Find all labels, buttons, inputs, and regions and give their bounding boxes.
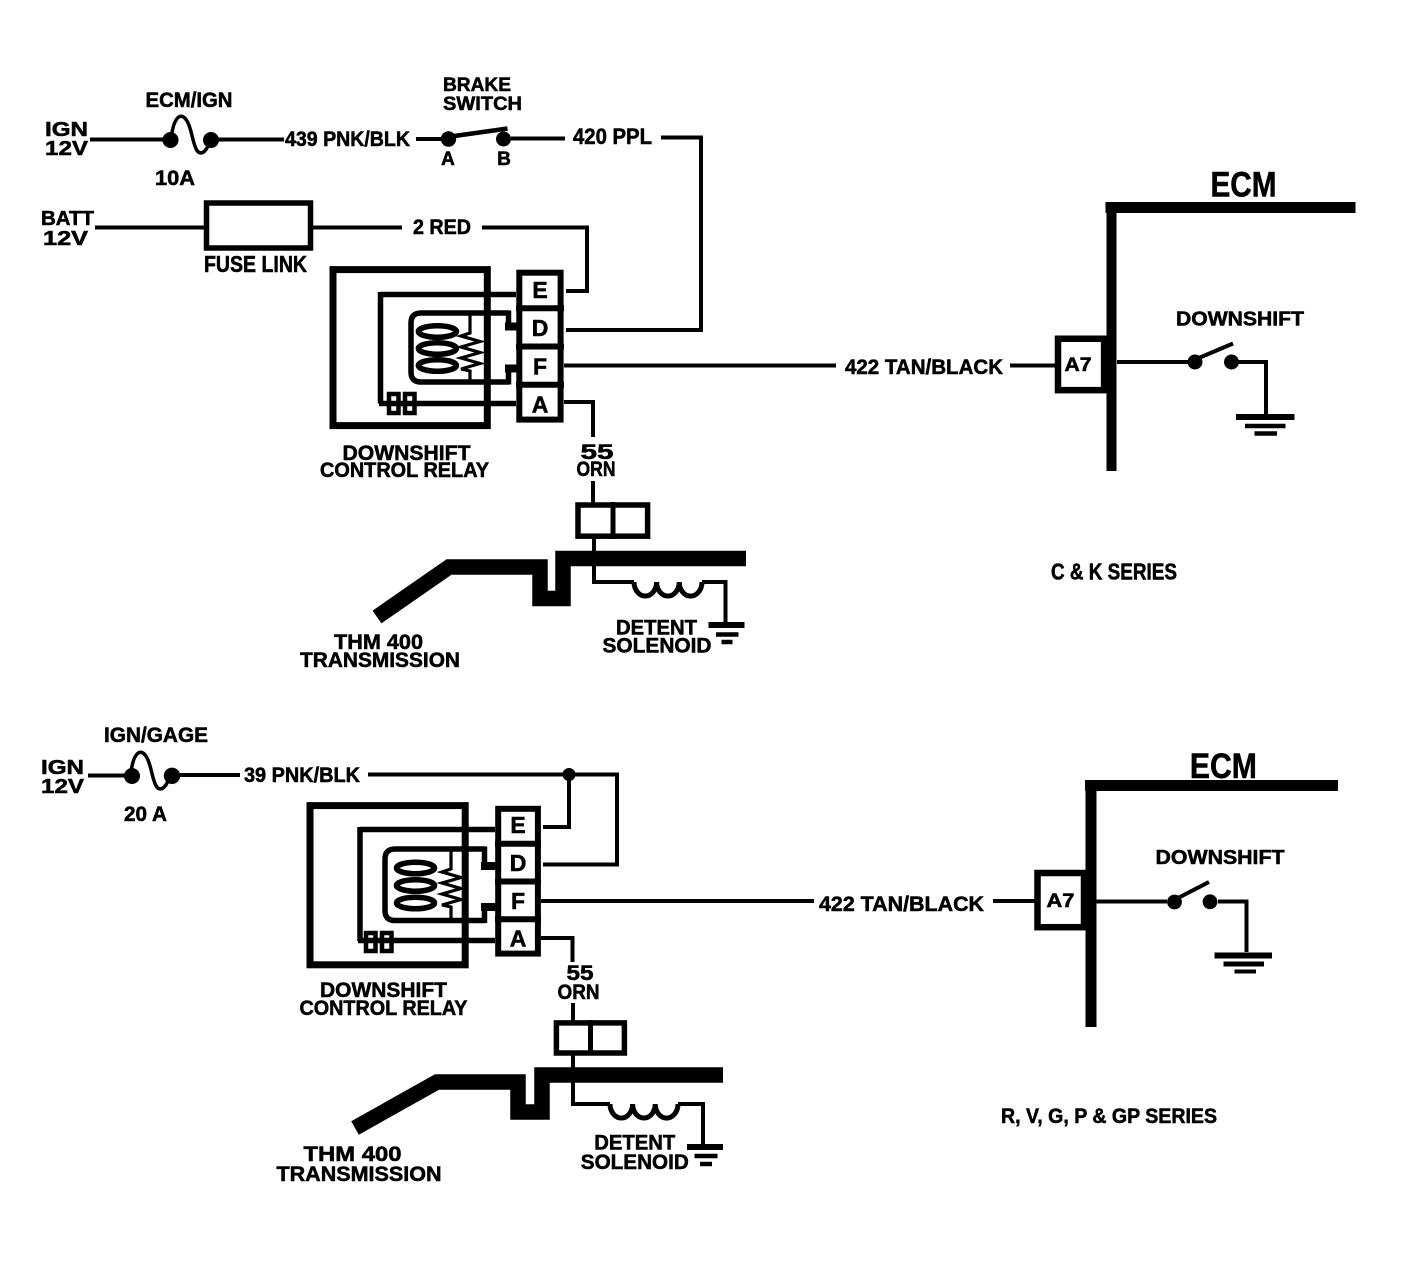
relay K2 tab to pin D <box>482 847 488 867</box>
svg-text:CONTROL RELAY: CONTROL RELAY <box>300 997 468 1020</box>
svg-text:FUSE LINK: FUSE LINK <box>204 251 307 277</box>
relay K1 downshift control relay (top) outer box <box>333 270 487 426</box>
wire switch to ground (top) <box>1238 362 1266 414</box>
relay K2 resistor zigzag <box>442 849 461 920</box>
svg-text:C & K SERIES: C & K SERIES <box>1051 559 1177 585</box>
svg-text:D: D <box>510 850 527 876</box>
ECM left bar (bottom) <box>1086 780 1097 1027</box>
wire brake switch to 420 PPL <box>511 137 565 141</box>
relay K1 terminal block <box>389 394 415 413</box>
wire fuse link to 2 RED <box>311 226 402 230</box>
svg-text:BRAKE: BRAKE <box>443 75 511 96</box>
wire A7 to downshift switch (bottom) <box>1096 900 1167 904</box>
svg-text:SOLENOID: SOLENOID <box>603 635 712 658</box>
relay K2 coil housing <box>385 849 485 921</box>
junction node (bottom) <box>563 768 576 781</box>
svg-text:422 TAN/BLACK: 422 TAN/BLACK <box>819 893 984 916</box>
svg-text:E: E <box>510 812 525 838</box>
svg-text:12V: 12V <box>43 228 89 250</box>
svg-text:SOLENOID: SOLENOID <box>581 1151 689 1174</box>
svg-text:439 PNK/BLK: 439 PNK/BLK <box>285 128 410 151</box>
wire switch to ground (bottom) <box>1218 902 1247 953</box>
fuse IGN/GAGE 20A <box>124 752 180 789</box>
relay K2 terminal block <box>366 933 392 951</box>
svg-text:SWITCH: SWITCH <box>443 94 522 115</box>
wire solenoid to ground (bottom) <box>678 1104 703 1145</box>
svg-text:TRANSMISSION: TRANSMISSION <box>300 649 460 672</box>
downshift switch (top) <box>1188 344 1240 370</box>
connector C4 two-way (bottom) <box>556 1020 624 1056</box>
wire pin F to 422 TAN/BLACK (bottom) <box>541 899 814 903</box>
ECM pin A7 box (top) <box>1058 339 1104 390</box>
wire 420 PPL to pin D <box>566 138 701 331</box>
ECM top bar (bottom) <box>1085 780 1338 791</box>
svg-text:12V: 12V <box>45 138 89 160</box>
svg-text:A: A <box>532 392 549 418</box>
ECM top bar (top) <box>1106 202 1356 213</box>
svg-text:B: B <box>497 149 511 170</box>
connector C1 (top) pins E D F A <box>516 273 564 420</box>
ground ECM downshift (bottom) <box>1215 956 1273 972</box>
svg-text:F: F <box>533 354 547 380</box>
wire 2 RED to pin E <box>482 228 587 292</box>
brake switch <box>441 129 511 147</box>
svg-text:ECM/IGN: ECM/IGN <box>146 89 233 112</box>
svg-text:420 PPL: 420 PPL <box>573 124 652 149</box>
wire fuse to 439 PNK/BLK <box>218 138 284 142</box>
wire BATT to fuse link <box>95 226 206 230</box>
connector C3 (bottom) pins E D F A <box>495 809 541 954</box>
svg-text:A: A <box>441 149 455 170</box>
svg-text:F: F <box>511 888 525 914</box>
svg-text:12V: 12V <box>41 776 85 798</box>
wire connector to solenoid (top) <box>594 539 634 582</box>
relay K2 wire terminals to pin A <box>358 938 495 944</box>
detent solenoid L1 (top) <box>634 582 702 596</box>
relay K2 tab to pin F <box>482 907 488 923</box>
svg-text:ORN: ORN <box>577 458 616 481</box>
relay K2 downshift control relay (bottom) outer box <box>310 806 465 965</box>
wire IGN to fuse (bottom) <box>88 774 125 778</box>
svg-text:A7: A7 <box>1065 355 1092 376</box>
ECM left bar (top) <box>1107 202 1117 471</box>
svg-text:39 PNK/BLK: 39 PNK/BLK <box>244 764 360 787</box>
svg-text:ECM: ECM <box>1211 166 1277 205</box>
relay K1 tab to pin D <box>506 311 512 327</box>
relay K1 coil winding <box>418 326 456 372</box>
relay K2 coil feed line to pin E <box>360 827 495 833</box>
svg-text:R, V, G, P & GP SERIES: R, V, G, P & GP SERIES <box>1001 1105 1217 1128</box>
svg-text:2 RED: 2 RED <box>413 216 471 239</box>
relay K1 resistor zigzag <box>461 313 480 381</box>
wire pin A to 55 ORN (top) <box>564 402 593 437</box>
relay K1 coil housing <box>411 313 509 382</box>
relay K1 wire terminals to pin A <box>379 401 516 407</box>
ground ECM downshift (top) <box>1236 417 1295 434</box>
ground detent solenoid (top) <box>709 625 745 642</box>
wire A7 to downshift switch (top) <box>1117 360 1188 364</box>
svg-text:20 A: 20 A <box>124 803 167 826</box>
svg-text:BATT: BATT <box>41 208 94 230</box>
svg-text:IGN/GAGE: IGN/GAGE <box>104 724 208 747</box>
svg-text:DOWNSHIFT: DOWNSHIFT <box>1156 847 1285 869</box>
wire 422 to A7 (top) <box>1010 364 1056 368</box>
ECM pin A7 box (bottom) <box>1038 873 1085 927</box>
svg-text:A7: A7 <box>1047 891 1075 912</box>
wire 55 ORN to connector (bottom) <box>571 1003 575 1022</box>
wire 55 ORN to connector (top) <box>591 481 595 504</box>
wire fuse to 39 PNK/BLK <box>180 773 240 777</box>
wire pin F to 422 TAN/BLACK (top) <box>564 364 836 368</box>
connector C2 two-way (top) <box>578 502 648 539</box>
relay K1 coil feed line to pin E <box>381 292 517 298</box>
wire IGN to fuse (top) <box>90 138 164 142</box>
wire connector to solenoid (bottom) <box>573 1056 610 1105</box>
wire junction to pin E (bottom) <box>543 775 569 828</box>
svg-text:E: E <box>532 277 547 303</box>
svg-text:10A: 10A <box>155 167 195 190</box>
ground detent solenoid (bottom) <box>687 1147 723 1164</box>
transmission case boundary (top) <box>377 559 746 618</box>
svg-text:ORN: ORN <box>558 981 600 1004</box>
fuse ECM/IGN 10A <box>163 116 220 153</box>
wire pin A to 55 ORN (bottom) <box>541 938 573 962</box>
svg-text:D: D <box>532 315 549 341</box>
svg-text:CONTROL RELAY: CONTROL RELAY <box>320 459 489 482</box>
downshift switch (bottom) <box>1167 882 1217 909</box>
svg-text:A: A <box>510 926 527 952</box>
svg-text:422 TAN/BLACK: 422 TAN/BLACK <box>845 356 1003 379</box>
relay K2 coil winding <box>397 862 435 909</box>
wire 439 to brake switch <box>416 137 442 141</box>
svg-text:DOWNSHIFT: DOWNSHIFT <box>1176 309 1304 331</box>
wire solenoid to ground (top) <box>702 582 726 623</box>
relay K2 inner left wire <box>357 827 363 941</box>
fuse link F1 <box>207 203 311 248</box>
wire 39 PNK/BLK to pins E and D <box>368 775 617 865</box>
transmission case boundary (bottom) <box>355 1075 723 1128</box>
svg-text:TRANSMISSION: TRANSMISSION <box>277 1163 442 1186</box>
wire 422 to A7 (bottom) <box>993 899 1035 903</box>
relay K1 tab to pin F <box>506 369 512 385</box>
relay K1 inner left wire <box>378 292 384 404</box>
detent solenoid L2 (bottom) <box>610 1104 678 1118</box>
